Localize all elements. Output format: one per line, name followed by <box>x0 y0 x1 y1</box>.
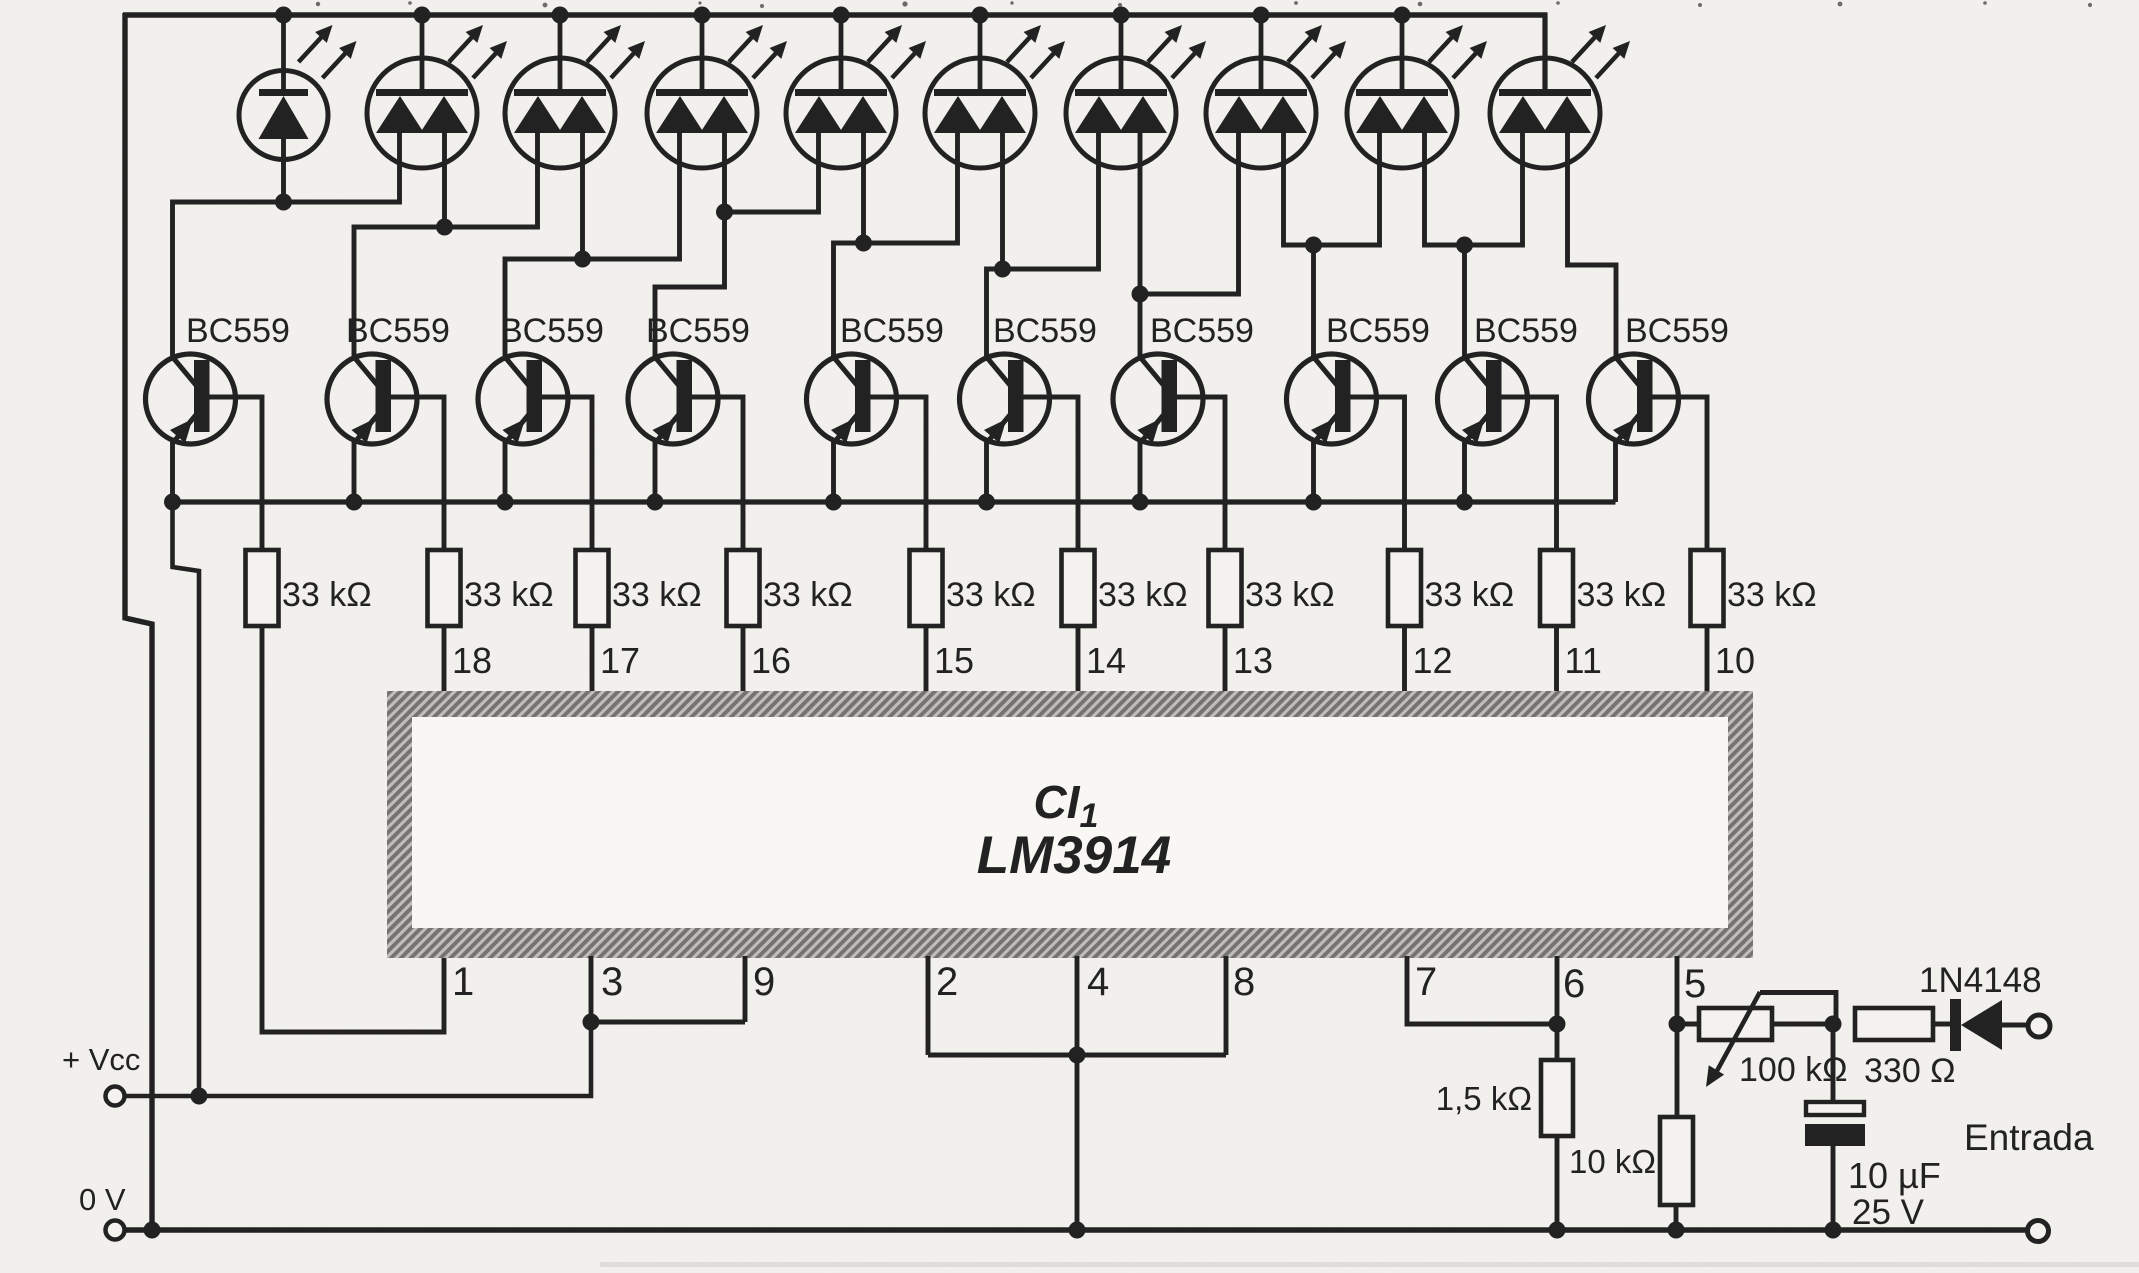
transistor Q1 BC559 (PNP) <box>146 354 236 444</box>
svg-text:33 kΩ: 33 kΩ <box>1245 576 1335 614</box>
junction: LED6 cathode on top rail <box>972 7 989 24</box>
wire: pin 5 stub <box>1675 956 1680 1117</box>
junction: Q1 emitter on rail <box>164 494 181 511</box>
junction: R12 on 0V rail <box>1668 1222 1685 1239</box>
svg-text:33 kΩ: 33 kΩ <box>763 576 853 614</box>
wire: LED3 right anode drop <box>580 131 585 259</box>
svg-text:BC559: BC559 <box>346 312 450 350</box>
wire: R5 to IC pin <box>924 626 929 693</box>
junction: Q4 emitter on rail <box>647 494 664 511</box>
wire: pin 4 to 0V <box>1075 1055 1080 1230</box>
led LED7 (dual) <box>1066 15 1206 168</box>
svg-text:33 kΩ: 33 kΩ <box>282 576 372 614</box>
wire: LED2 right anode drop <box>442 131 447 227</box>
wire: pins 2-4-8 tie <box>928 1053 1226 1058</box>
wire: R9 to IC pin <box>1554 626 1559 693</box>
terminal 0V <box>106 1221 125 1240</box>
svg-text:BC559: BC559 <box>993 312 1097 350</box>
junction: Q5 emitter on rail <box>825 494 842 511</box>
led LED9 (dual) <box>1347 15 1487 168</box>
junction: Q2 emitter on rail <box>346 494 363 511</box>
resistor R2 33 kOhm <box>428 550 461 626</box>
wire: stage5 bus (Q5 collector / LED5 right anode / LED6 left anode) <box>834 131 958 356</box>
node: stage7 junction <box>1132 286 1149 303</box>
wire: transistor emitter rail (+Vcc bus) <box>168 499 1616 504</box>
svg-text:12: 12 <box>1413 640 1453 681</box>
resistor R1 33 kOhm <box>246 550 279 626</box>
wire: pin 8 stub <box>1224 956 1229 1055</box>
junction: Q6 emitter on rail <box>978 494 995 511</box>
junction: LED2 cathode on top rail <box>414 7 431 24</box>
wire: R11 to 0V <box>1555 1136 1560 1230</box>
svg-text:BC559: BC559 <box>646 312 750 350</box>
junction: Q9 emitter on rail <box>1456 494 1473 511</box>
node: stage5 junction <box>855 235 872 252</box>
wire: stage10 path (LED10 right anode to Q10 collector) <box>1568 131 1617 356</box>
wire: Q10 base to resistor <box>1652 397 1708 550</box>
svg-text:33 kΩ: 33 kΩ <box>1425 576 1515 614</box>
transistor Q5 BC559 (PNP) <box>807 354 897 444</box>
svg-text:BC559: BC559 <box>1150 312 1254 350</box>
svg-text:1: 1 <box>452 960 474 1004</box>
svg-text:33 kΩ: 33 kΩ <box>1098 576 1188 614</box>
led LED8 (dual) <box>1206 15 1346 168</box>
led LED3 (dual) <box>505 15 645 168</box>
wire: +Vcc horizontal to pin 3 <box>125 1022 592 1096</box>
wire: pin 7 stub <box>1407 956 1557 1024</box>
wire: stage4 zigzag to Q4 collector <box>655 212 725 356</box>
junction: LED4 cathode on top rail <box>694 7 711 24</box>
wire: stage1 bus (Q1 collector / LED1 anode / LED2 left anode) <box>173 131 400 356</box>
wire: LED5 right anode drop <box>861 131 866 243</box>
svg-text:1,5 kΩ: 1,5 kΩ <box>1436 1080 1532 1117</box>
wire: R12 to 0V <box>1674 1205 1679 1230</box>
wire: +V top rail (LED cathode bus) <box>123 12 1548 18</box>
resistor R5 33 kOhm <box>910 550 943 626</box>
wire: Q2 base to resistor <box>390 397 444 550</box>
wire: LED10 cathode drop from top rail <box>1542 13 1547 90</box>
node: stage6 junction <box>994 261 1011 278</box>
wire: Q5 emitter drop <box>831 440 836 502</box>
svg-text:7: 7 <box>1415 960 1437 1004</box>
wire: Q8 base to resistor <box>1350 397 1405 550</box>
resistor R8 33 kOhm <box>1388 550 1421 626</box>
wire: Q6 emitter drop <box>984 440 989 502</box>
svg-text:BC559: BC559 <box>186 312 290 350</box>
junction: Q3 emitter on rail <box>497 494 514 511</box>
svg-text:LM3914: LM3914 <box>977 826 1171 885</box>
wire: Q4 base to resistor <box>691 397 743 550</box>
wire: Q7 base to resistor <box>1176 397 1225 550</box>
wire: pin 3 stub <box>589 956 594 1022</box>
wire: emitter rail to +Vcc feed <box>173 502 200 1096</box>
junction: Vcc feed on +Vcc wire <box>191 1088 208 1105</box>
wire: R3 to IC pin <box>590 626 595 693</box>
node: pin4 tie junction <box>1069 1047 1086 1064</box>
resistor R12 10 kOhm <box>1660 1117 1693 1205</box>
wire: LED1 anode drop <box>281 139 286 202</box>
wire: pin 9 stub <box>743 956 748 1022</box>
node: stage2 junction <box>436 219 453 236</box>
scan speckles top edge <box>316 1 2092 8</box>
wire: R7 to IC pin <box>1223 626 1228 693</box>
svg-text:3: 3 <box>601 960 623 1004</box>
wire: Q8 emitter drop <box>1311 440 1316 502</box>
transistor Q10 BC559 (PNP) <box>1589 354 1679 444</box>
resistor R13 330 Ohm <box>1855 1008 1953 1040</box>
svg-text:1N4148: 1N4148 <box>1919 961 2042 1000</box>
junction: pin4 on 0V rail <box>1069 1222 1086 1239</box>
node: pin5 junction <box>1669 1016 1686 1033</box>
node: stage9 junction <box>1456 237 1473 254</box>
wire: Q1 base to resistor <box>209 397 263 550</box>
junction: 0V rail left <box>144 1222 161 1239</box>
wire: R1 to IC pin 1 <box>262 626 444 1032</box>
node: stage1 junction <box>275 194 292 211</box>
svg-text:10: 10 <box>1715 640 1755 681</box>
svg-text:15: 15 <box>934 640 974 681</box>
diode D1 1N4148 <box>1950 999 2028 1051</box>
svg-text:11: 11 <box>1565 640 1602 681</box>
junction: Q8 emitter on rail <box>1305 494 1322 511</box>
svg-text:BC559: BC559 <box>1474 312 1578 350</box>
resistor R10 33 kOhm <box>1691 550 1724 626</box>
wire: stage6 bus (Q6 collector / LED6 right anode / LED7 left anode) <box>987 131 1099 356</box>
terminal +Vcc <box>106 1087 125 1106</box>
wire: 0V bottom rail <box>124 1227 2027 1232</box>
node: stage4 junction <box>716 204 733 221</box>
wire: Q5 base to resistor <box>870 397 927 550</box>
junction: LED8 cathode on top rail <box>1253 7 1270 24</box>
svg-text:BC559: BC559 <box>840 312 944 350</box>
resistor R6 33 kOhm <box>1062 550 1095 626</box>
svg-text:10 µF: 10 µF <box>1848 1155 1941 1196</box>
resistor R9 33 kOhm <box>1540 550 1573 626</box>
junction: LED5 cathode on top rail <box>833 7 850 24</box>
transistor Q8 BC559 (PNP) <box>1287 354 1377 444</box>
node: pot/diode/cap junction <box>1825 1016 1842 1033</box>
wire: pin 4 stub <box>1075 956 1080 1055</box>
svg-text:33 kΩ: 33 kΩ <box>1577 576 1667 614</box>
wire: R4 to IC pin <box>741 626 746 693</box>
svg-text:10 kΩ: 10 kΩ <box>1569 1143 1656 1180</box>
resistor R3 33 kOhm <box>576 550 609 626</box>
transistor Q3 BC559 (PNP) <box>478 354 568 444</box>
resistor R7 33 kOhm <box>1209 550 1242 626</box>
wire: left border 0V drop <box>125 13 152 1230</box>
svg-text:BC559: BC559 <box>500 312 604 350</box>
wire: Q9 collector drop <box>1462 245 1467 356</box>
led LED5 (dual) <box>786 15 926 168</box>
wire: LED6 right anode drop <box>1000 131 1005 269</box>
transistor Q9 BC559 (PNP) <box>1438 354 1528 444</box>
junction: C1 on 0V rail <box>1825 1222 1842 1239</box>
transistor Q6 BC559 (PNP) <box>960 354 1050 444</box>
junction: Q7 emitter on rail <box>1132 494 1149 511</box>
wire: stage9 bus (LED9 right anode / Q9 collector / LED10 left anode) <box>1425 131 1523 245</box>
capacitor C1 10 uF electrolytic <box>1805 1024 1865 1230</box>
svg-text:18: 18 <box>452 640 492 681</box>
transistor Q7 BC559 (PNP) <box>1113 354 1203 444</box>
node: pin6 junction <box>1549 1016 1566 1033</box>
svg-text:13: 13 <box>1233 640 1273 681</box>
svg-text:BC559: BC559 <box>1625 312 1729 350</box>
svg-text:33 kΩ: 33 kΩ <box>464 576 554 614</box>
wire: stage2 bus (Q2 collector / LED2 right anode / LED3 left anode) <box>354 131 538 356</box>
led LED1 (single) <box>239 15 357 160</box>
svg-text:0 V: 0 V <box>79 1182 126 1217</box>
wire: stage7 bus (Q7 collector / LED7 right anode / LED8 left anode) <box>1138 131 1143 356</box>
junction: LED7 cathode on top rail <box>1113 7 1130 24</box>
terminal: 0V right end <box>2028 1221 2049 1242</box>
wire: Q4 emitter drop <box>653 440 658 502</box>
svg-text:33 kΩ: 33 kΩ <box>946 576 1036 614</box>
wire: Q10 emitter drop <box>1613 440 1618 502</box>
svg-text:25 V: 25 V <box>1852 1193 1925 1232</box>
svg-text:6: 6 <box>1563 962 1585 1006</box>
node: pin3/Vcc junction <box>583 1014 600 1031</box>
wire: R2 to IC pin <box>442 626 447 693</box>
wire: stage4 bus (LED4 right anode / LED5 left anode) <box>725 131 819 212</box>
wire: Q7 emitter drop <box>1138 440 1143 502</box>
svg-text:+ Vcc: + Vcc <box>62 1042 140 1077</box>
wire: Q1 emitter drop <box>170 440 175 502</box>
potentiometer RP1 100 kOhm (rheostat) <box>1677 992 1836 1087</box>
resistor R11 1.5 kOhm <box>1541 1060 1573 1136</box>
svg-text:17: 17 <box>600 640 640 681</box>
wire: Q9 emitter drop <box>1462 440 1467 502</box>
svg-text:33 kΩ: 33 kΩ <box>612 576 702 614</box>
wire: stage3 bus (Q3 collector / LED3 right anode / LED4 left anode) <box>505 131 680 356</box>
svg-text:4: 4 <box>1087 960 1109 1004</box>
svg-text:33 kΩ: 33 kΩ <box>1727 576 1817 614</box>
svg-text:16: 16 <box>751 640 791 681</box>
wire: R8 to IC pin <box>1402 626 1407 693</box>
node: stage8 junction <box>1305 237 1322 254</box>
wire: pin 3 to pin 9 <box>591 1020 745 1025</box>
junction: LED3 cathode on top rail <box>552 7 569 24</box>
transistor Q2 BC559 (PNP) <box>327 354 417 444</box>
wire: Q6 base to resistor <box>1023 397 1079 550</box>
wire: Q3 base to resistor <box>541 397 592 550</box>
led LED10 (dual) <box>1490 25 1630 168</box>
svg-text:BC559: BC559 <box>1326 312 1430 350</box>
wire: pin 6 stub <box>1555 956 1560 1060</box>
svg-text:5: 5 <box>1684 962 1706 1006</box>
wire: stage8 bus (LED8 right anode / Q8 collector / LED9 left anode) <box>1284 131 1380 245</box>
led LED4 (dual) <box>647 15 787 168</box>
wire: pin 2 stub <box>926 956 931 1055</box>
junction: LED9 cathode on top rail <box>1394 7 1411 24</box>
wire: Q9 base to resistor <box>1501 397 1557 550</box>
terminal: Entrada input <box>2028 1015 2050 1037</box>
svg-text:14: 14 <box>1086 640 1126 681</box>
wire: Q8 collector drop <box>1311 245 1316 356</box>
svg-text:Entrada: Entrada <box>1964 1117 2094 1158</box>
wire: Q3 emitter drop <box>503 440 508 502</box>
svg-text:2: 2 <box>936 960 958 1004</box>
wire: R6 to IC pin <box>1076 626 1081 693</box>
node: stage3 junction <box>574 251 591 268</box>
junction: R11 on 0V rail <box>1549 1222 1566 1239</box>
resistor R4 33 kOhm <box>727 550 760 626</box>
op-amp/IC U1: CI1 LM3914 bar-graph driver <box>387 691 1753 958</box>
led LED6 (dual) <box>925 15 1065 168</box>
svg-text:9: 9 <box>753 960 775 1004</box>
junction: LED1 cathode on top rail <box>275 7 292 24</box>
scan streak bottom <box>600 1262 2139 1267</box>
wire: Q2 emitter drop <box>352 440 357 502</box>
wire: R10 to IC pin <box>1705 626 1710 693</box>
svg-text:330 Ω: 330 Ω <box>1864 1052 1956 1090</box>
led LED2 (dual) <box>367 15 507 168</box>
svg-text:8: 8 <box>1233 960 1255 1004</box>
transistor Q4 BC559 (PNP) <box>628 354 718 444</box>
